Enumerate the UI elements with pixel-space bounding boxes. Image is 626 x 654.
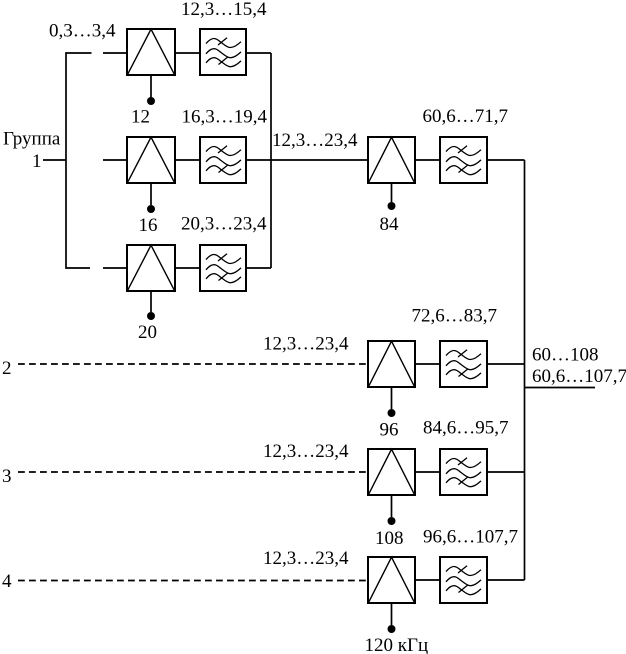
svg-text:12,3…23,4: 12,3…23,4	[263, 548, 349, 569]
svg-text:Группа: Группа	[3, 129, 61, 150]
svg-text:2: 2	[2, 358, 12, 379]
svg-text:84: 84	[380, 214, 400, 235]
svg-text:12: 12	[131, 107, 150, 128]
svg-text:16,3…19,4: 16,3…19,4	[182, 107, 268, 128]
svg-text:16: 16	[139, 215, 158, 236]
svg-text:108: 108	[375, 528, 404, 549]
svg-text:4: 4	[2, 571, 12, 592]
svg-text:12,3…23,4: 12,3…23,4	[272, 130, 358, 151]
svg-text:96: 96	[380, 420, 399, 441]
svg-text:60…108: 60…108	[532, 345, 599, 366]
svg-text:120 кГц: 120 кГц	[365, 635, 429, 654]
svg-text:84,6…95,7: 84,6…95,7	[423, 418, 509, 439]
svg-text:72,6…83,7: 72,6…83,7	[412, 306, 498, 327]
svg-text:96,6…107,7: 96,6…107,7	[423, 527, 518, 548]
svg-text:60,6…107,7: 60,6…107,7	[532, 366, 626, 387]
svg-text:20,3…23,4: 20,3…23,4	[181, 214, 267, 235]
svg-text:12,3…23,4: 12,3…23,4	[263, 334, 349, 355]
svg-text:20: 20	[138, 322, 157, 343]
svg-text:12,3…15,4: 12,3…15,4	[181, 0, 267, 20]
svg-text:60,6…71,7: 60,6…71,7	[423, 106, 509, 127]
svg-text:12,3…23,4: 12,3…23,4	[263, 441, 349, 462]
svg-text:3: 3	[2, 466, 12, 487]
svg-text:0,3…3,4: 0,3…3,4	[49, 21, 116, 42]
svg-text:1: 1	[32, 151, 42, 172]
